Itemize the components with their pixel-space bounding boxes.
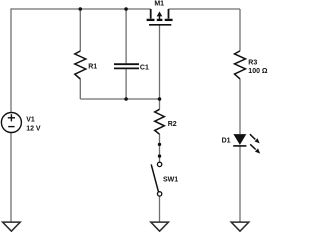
svg-text:V1: V1 [26,117,35,124]
svg-text:R3: R3 [248,59,257,66]
svg-text:100 Ω: 100 Ω [248,68,268,75]
svg-text:R1: R1 [88,64,97,71]
svg-text:C1: C1 [140,64,149,71]
svg-text:SW1: SW1 [163,176,178,183]
svg-text:M1: M1 [154,0,164,7]
svg-text:R2: R2 [168,121,177,128]
svg-text:D1: D1 [222,138,231,145]
svg-text:12 V: 12 V [26,126,41,133]
